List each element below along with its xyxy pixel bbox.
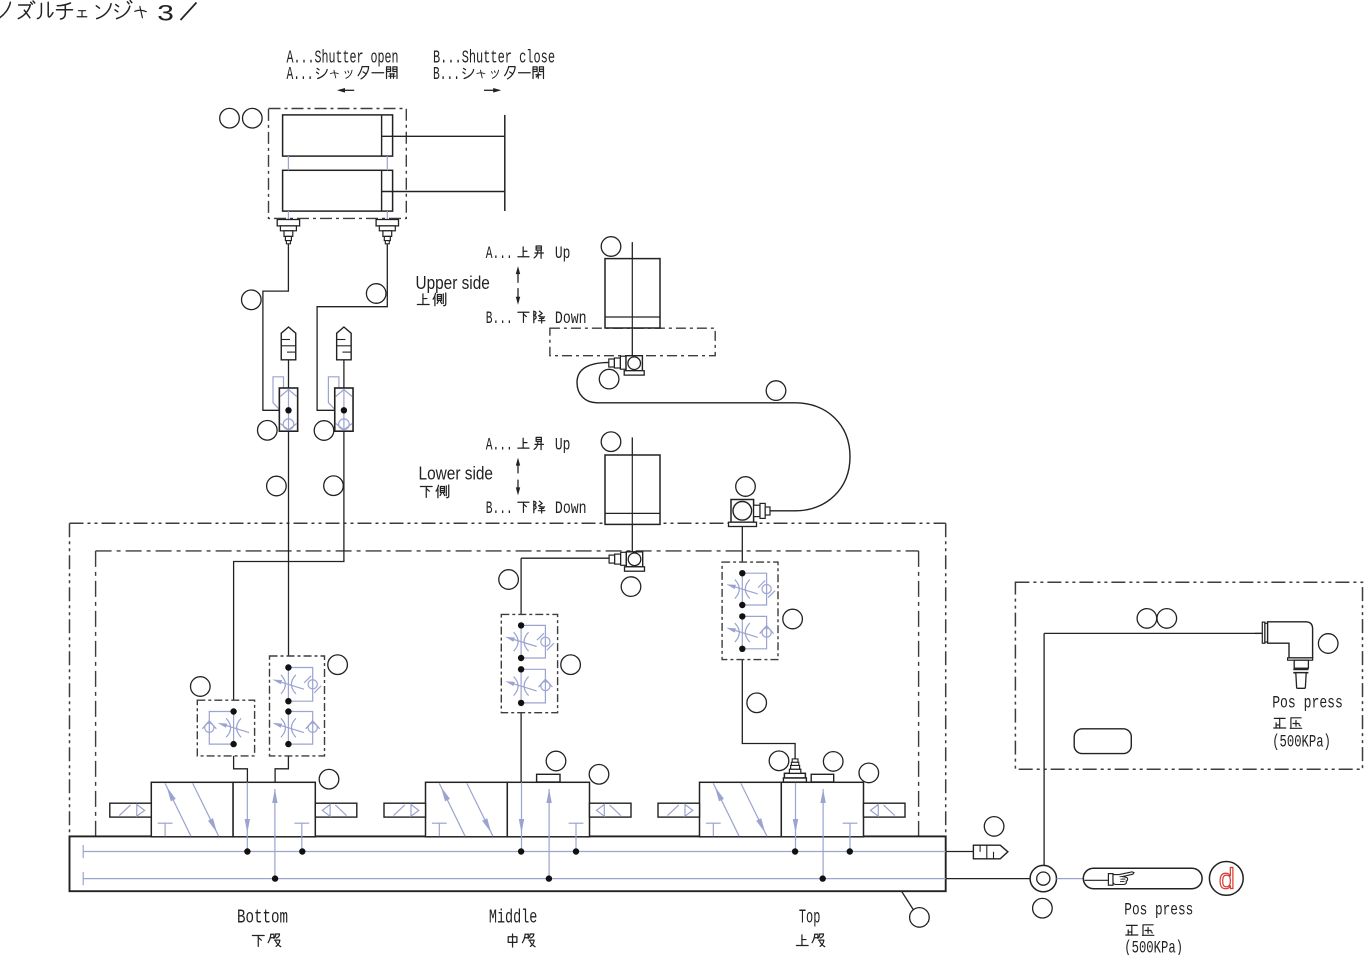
svg-text:A...: A... [287,65,314,85]
svg-text:Top: Top [799,907,821,929]
svg-text:Lower side: Lower side [419,464,494,484]
svg-text:B...: B... [486,499,513,519]
svg-text:Pos press: Pos press [1124,900,1193,920]
svg-text:Bottom: Bottom [237,907,288,929]
svg-text:Down: Down [555,309,587,329]
svg-text:(500KPa): (500KPa) [1124,939,1183,955]
svg-text:B...: B... [433,65,460,85]
svg-text:Upper side: Upper side [416,273,490,293]
svg-text:Middle: Middle [489,907,538,929]
svg-text:Up: Up [555,244,571,264]
svg-text:Up: Up [555,436,571,456]
svg-text:Pos press: Pos press [1272,693,1343,713]
svg-text:A...: A... [486,436,513,456]
svg-text:(500KPa): (500KPa) [1272,733,1331,753]
svg-text:A...: A... [486,244,513,264]
svg-text:d: d [1218,865,1235,898]
svg-text:B...: B... [486,309,513,329]
svg-text:Down: Down [555,499,587,519]
svg-text:3: 3 [157,2,175,28]
